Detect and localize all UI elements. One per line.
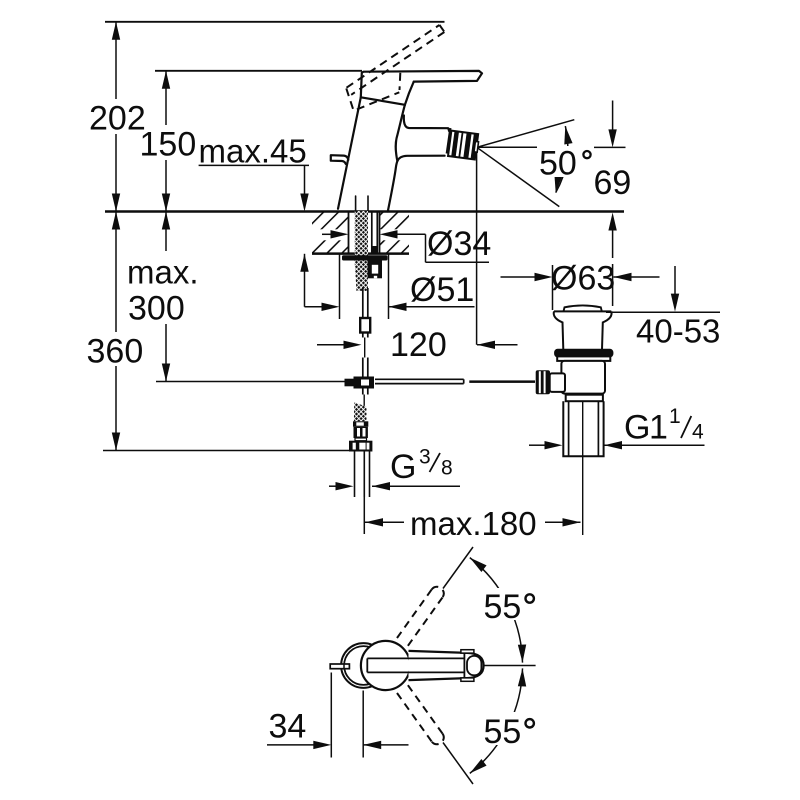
svg-text:1: 1 [669, 405, 681, 428]
svg-text:55: 55 [484, 588, 522, 626]
svg-text:Ø51: Ø51 [410, 271, 474, 309]
svg-text:40-53: 40-53 [636, 313, 720, 350]
svg-text:50: 50 [539, 145, 577, 183]
svg-text:G: G [390, 448, 416, 486]
svg-text:Ø34: Ø34 [427, 225, 491, 263]
svg-text:Ø63: Ø63 [551, 260, 615, 298]
svg-text:3: 3 [419, 446, 431, 469]
svg-text:max.: max. [127, 254, 199, 291]
svg-text:360: 360 [87, 333, 144, 371]
svg-text:55: 55 [484, 713, 522, 751]
svg-text:69: 69 [594, 164, 632, 202]
svg-text:300: 300 [128, 290, 185, 328]
svg-text:150: 150 [140, 126, 197, 164]
svg-text:8: 8 [441, 457, 453, 480]
svg-text:120: 120 [390, 326, 447, 364]
svg-text:202: 202 [89, 100, 146, 138]
svg-text:max.45: max.45 [199, 133, 307, 170]
svg-text:G1: G1 [624, 409, 667, 447]
svg-text:4: 4 [692, 421, 704, 444]
svg-text:max.180: max.180 [410, 505, 537, 542]
svg-text:34: 34 [269, 708, 307, 746]
